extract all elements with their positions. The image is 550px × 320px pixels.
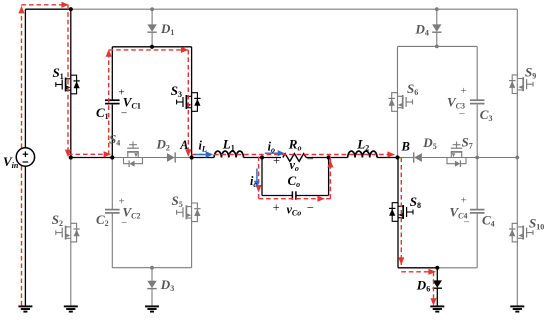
svg-text:S5: S5 xyxy=(172,193,183,209)
svg-text:S2: S2 xyxy=(52,212,63,228)
svg-text:iL: iL xyxy=(199,139,207,154)
svg-text:D2: D2 xyxy=(156,137,170,153)
svg-text:+: + xyxy=(273,201,280,215)
svg-text:+: + xyxy=(273,153,280,167)
svg-text:+: + xyxy=(119,87,125,99)
svg-text:−: − xyxy=(464,217,470,229)
svg-text:−: − xyxy=(121,217,127,229)
svg-text:S4: S4 xyxy=(109,131,120,147)
svg-text:C4: C4 xyxy=(482,213,495,229)
svg-text:Co: Co xyxy=(288,173,301,189)
svg-text:+: + xyxy=(461,85,467,97)
svg-text:L2: L2 xyxy=(356,137,369,153)
svg-text:S3: S3 xyxy=(171,83,182,99)
svg-text:D4: D4 xyxy=(415,22,429,38)
svg-text:C2: C2 xyxy=(96,212,109,228)
svg-text:vo: vo xyxy=(290,158,299,173)
svg-text:−: − xyxy=(307,152,314,166)
svg-text:D3: D3 xyxy=(160,277,174,293)
svg-text:S6: S6 xyxy=(407,81,418,97)
svg-text:Ro: Ro xyxy=(288,137,302,153)
svg-text:S9: S9 xyxy=(525,65,536,81)
svg-text:−: − xyxy=(121,108,127,120)
svg-text:D1: D1 xyxy=(160,21,174,37)
svg-text:D5: D5 xyxy=(422,135,436,151)
svg-text:S10: S10 xyxy=(529,215,544,231)
svg-text:S8: S8 xyxy=(410,194,421,210)
svg-text:+: + xyxy=(461,195,467,207)
svg-text:io: io xyxy=(268,139,275,154)
svg-text:S7: S7 xyxy=(462,135,473,151)
svg-text:A: A xyxy=(179,138,188,152)
svg-text:−: − xyxy=(307,200,314,214)
svg-text:+: + xyxy=(119,196,125,208)
svg-text:B: B xyxy=(401,140,410,154)
svg-text:−: − xyxy=(459,108,465,120)
svg-text:S1: S1 xyxy=(53,65,64,81)
svg-text:L1: L1 xyxy=(222,136,235,152)
svg-text:D6: D6 xyxy=(416,277,430,293)
svg-text:C3: C3 xyxy=(480,107,493,123)
svg-text:C1: C1 xyxy=(96,105,109,121)
svg-text:vCo: vCo xyxy=(287,203,302,218)
